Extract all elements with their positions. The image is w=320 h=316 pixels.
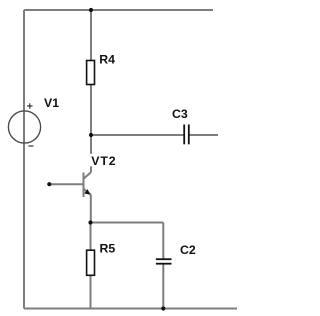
svg-text:R4: R4 [99,53,115,67]
svg-text:VT2: VT2 [91,154,116,168]
svg-text:C3: C3 [172,107,188,121]
svg-text:C2: C2 [180,243,196,257]
svg-text:R5: R5 [100,241,116,255]
svg-text:V1: V1 [44,96,59,110]
